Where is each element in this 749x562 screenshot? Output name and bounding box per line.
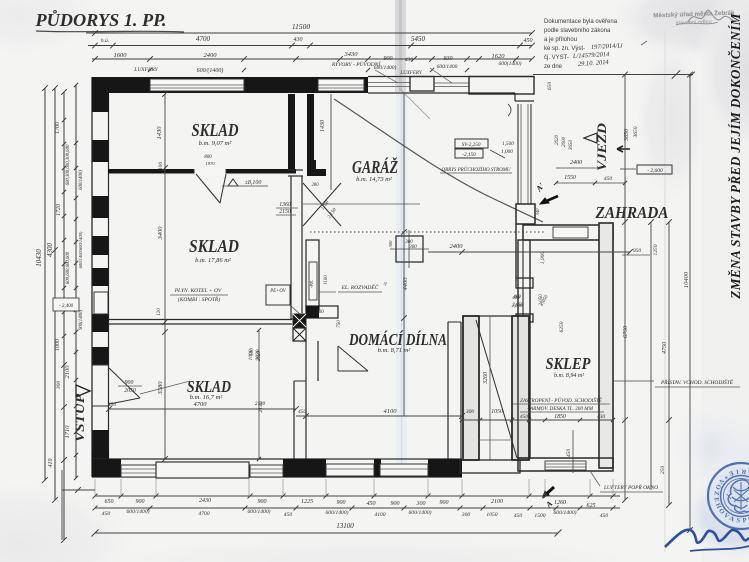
svg-text:10430: 10430 <box>35 249 43 267</box>
svg-text:3260: 3260 <box>483 372 489 385</box>
svg-text:EL. ROZVADĚČ: EL. ROZVADĚČ <box>341 283 379 291</box>
svg-text:450: 450 <box>520 413 529 420</box>
svg-text:1720: 1720 <box>56 204 62 216</box>
svg-text:1,500: 1,500 <box>502 141 514 147</box>
svg-text:600/1400): 600/1400) <box>326 509 349 516</box>
svg-text:450: 450 <box>565 449 572 458</box>
svg-text:1000: 1000 <box>55 339 61 351</box>
svg-text:2430: 2430 <box>199 497 211 504</box>
svg-text:6750: 6750 <box>623 326 629 338</box>
svg-text:600,600,600,600: 600,600,600,600 <box>66 251 71 284</box>
svg-text:4300: 4300 <box>46 243 54 258</box>
svg-text:450: 450 <box>524 37 533 44</box>
svg-text:750: 750 <box>337 320 342 328</box>
svg-text:900(1400): 900(1400) <box>79 310 84 330</box>
svg-text:2,050: 2,050 <box>539 294 544 306</box>
svg-text:2100: 2100 <box>64 365 71 379</box>
svg-text:900: 900 <box>125 380 134 386</box>
svg-text:4700: 4700 <box>196 35 211 43</box>
svg-text:LUXFERY: LUXFERY <box>133 67 158 73</box>
svg-text:b.m. 9,07 m²: b.m. 9,07 m² <box>199 140 233 147</box>
svg-text:200: 200 <box>316 310 324 315</box>
svg-text:1970: 1970 <box>205 161 215 166</box>
svg-text:450: 450 <box>514 513 523 519</box>
svg-text:-2,150: -2,150 <box>462 152 476 158</box>
svg-text:2400: 2400 <box>204 52 218 59</box>
svg-text:900: 900 <box>440 500 449 506</box>
svg-text:PLYN. KOTEL + OV: PLYN. KOTEL + OV <box>174 288 222 294</box>
svg-text:čj. VYST-: čj. VYST- <box>544 55 569 61</box>
svg-text:3430: 3430 <box>344 51 359 58</box>
svg-text:4750: 4750 <box>661 342 668 354</box>
svg-text:a je přílohou: a je přílohou <box>544 37 577 43</box>
svg-text:(KOMBI : SPOTŘ): (KOMBI : SPOTŘ) <box>178 295 220 303</box>
svg-text:450: 450 <box>367 500 376 507</box>
svg-text:GARÁŽ: GARÁŽ <box>352 157 398 177</box>
svg-text:900: 900 <box>337 500 346 506</box>
svg-text:- 2,400: - 2,400 <box>59 304 74 309</box>
svg-text:Dokumentace byla ověřena: Dokumentace byla ověřena <box>544 19 618 25</box>
svg-text:SKLAD: SKLAD <box>192 120 239 140</box>
svg-text:430: 430 <box>405 56 414 63</box>
svg-text:450: 450 <box>298 408 307 415</box>
svg-text:1360: 1360 <box>279 202 291 208</box>
svg-text:b.m. 8,94 m²: b.m. 8,94 m² <box>554 372 584 379</box>
svg-text:1,000: 1,000 <box>501 149 513 155</box>
svg-text:1850: 1850 <box>554 414 566 420</box>
svg-text:- 2,600: - 2,600 <box>647 168 663 174</box>
svg-text:1225: 1225 <box>301 499 313 505</box>
svg-text:1000: 1000 <box>248 349 254 360</box>
svg-text:2600: 2600 <box>562 137 567 148</box>
svg-text:450: 450 <box>108 401 117 408</box>
svg-text:1550: 1550 <box>564 175 576 181</box>
svg-text:LUFTERY POPŘ OKNO: LUFTERY POPŘ OKNO <box>603 483 658 491</box>
svg-text:b.m. 8,71 m²: b.m. 8,71 m² <box>378 347 412 354</box>
svg-text:VSTUP: VSTUP <box>72 393 87 442</box>
svg-text:600,300,600,300,600: 600,300,600,300,600 <box>66 144 71 185</box>
svg-text:1050: 1050 <box>486 512 497 518</box>
svg-text:- ARMOV. DESKA TL. 200 MM: - ARMOV. DESKA TL. 200 MM <box>527 406 594 412</box>
svg-text:900: 900 <box>136 499 145 505</box>
svg-text:600/1400): 600/1400) <box>554 509 577 516</box>
svg-text:1500: 1500 <box>534 513 545 519</box>
svg-text:120: 120 <box>157 308 162 316</box>
svg-text:600/1400/600/1400): 600/1400/600/1400) <box>78 231 83 268</box>
svg-text:1430: 1430 <box>156 126 163 140</box>
svg-text:4700: 4700 <box>194 401 208 408</box>
svg-text:450: 450 <box>102 511 111 517</box>
svg-text:410: 410 <box>47 459 54 468</box>
svg-text:PŘÍSTAV. VCHOD. SCHODIŠTĚ: PŘÍSTAV. VCHOD. SCHODIŠTĚ <box>660 378 734 386</box>
svg-text:2150: 2150 <box>279 209 291 215</box>
svg-text:300: 300 <box>56 381 62 391</box>
svg-text:430: 430 <box>597 413 606 420</box>
svg-text:LUXFERY: LUXFERY <box>399 71 423 76</box>
svg-text:3650: 3650 <box>633 126 639 138</box>
svg-text:450: 450 <box>604 175 613 182</box>
svg-text:4100: 4100 <box>374 512 385 518</box>
svg-text:ZASTROPENÍ - PŮVOD. SCHODIŠTĚ: ZASTROPENÍ - PŮVOD. SCHODIŠTĚ <box>520 396 603 404</box>
svg-text:SV-2,250: SV-2,250 <box>462 142 481 148</box>
svg-text:6250: 6250 <box>559 321 565 332</box>
svg-text:100: 100 <box>158 162 164 171</box>
svg-text:b.m. 17,86 m²: b.m. 17,86 m² <box>195 257 232 264</box>
svg-text:ze dne: ze dne <box>544 64 563 70</box>
svg-text:300: 300 <box>409 245 417 250</box>
svg-text:5450: 5450 <box>411 35 426 43</box>
svg-text:600/(1400): 600/(1400) <box>197 67 224 74</box>
svg-text:1250: 1250 <box>653 244 659 255</box>
svg-text:podle slavebního zákona: podle slavebního zákona <box>544 28 611 34</box>
svg-text:1620: 1620 <box>492 53 506 60</box>
svg-text:2100: 2100 <box>491 499 503 505</box>
svg-text:600/1400: 600/1400 <box>437 63 458 70</box>
svg-text:600/1400): 600/1400) <box>127 508 150 515</box>
svg-text:280: 280 <box>311 183 319 188</box>
svg-text:2620: 2620 <box>555 135 560 146</box>
svg-text:3650: 3650 <box>624 129 630 142</box>
svg-text:300: 300 <box>461 512 471 518</box>
svg-text:h.ú.: h.ú. <box>101 38 109 44</box>
svg-text:2,050: 2,050 <box>512 303 524 308</box>
svg-text:13100: 13100 <box>336 522 354 530</box>
svg-text:1,900: 1,900 <box>540 252 546 265</box>
svg-text:±8,100: ±8,100 <box>245 180 262 186</box>
svg-text:900: 900 <box>258 499 267 505</box>
svg-text:340: 340 <box>535 208 540 216</box>
svg-text:650: 650 <box>547 82 553 91</box>
svg-text:1710: 1710 <box>64 425 71 439</box>
svg-text:SKLEP: SKLEP <box>546 354 592 373</box>
svg-text:PŮDORYS 1. PP.: PŮDORYS 1. PP. <box>34 10 166 30</box>
svg-text:4700: 4700 <box>198 511 209 517</box>
svg-text:900: 900 <box>391 501 400 507</box>
svg-text:250: 250 <box>660 466 666 475</box>
svg-text:400: 400 <box>513 295 521 300</box>
svg-text:300: 300 <box>416 501 426 507</box>
svg-text:2400: 2400 <box>450 243 464 250</box>
svg-text:SKLAD: SKLAD <box>189 236 239 256</box>
svg-text:930: 930 <box>444 56 453 62</box>
svg-text:1700: 1700 <box>55 122 61 134</box>
svg-text:450: 450 <box>600 513 609 519</box>
svg-text:3650: 3650 <box>569 140 574 151</box>
svg-text:600/1400): 600/1400) <box>248 508 271 515</box>
svg-text:450: 450 <box>284 512 293 518</box>
svg-text:2400: 2400 <box>570 159 582 166</box>
svg-text:1260: 1260 <box>554 500 566 506</box>
svg-text:-PR.: -PR. <box>309 280 314 288</box>
svg-text:650: 650 <box>105 499 114 505</box>
svg-text:900: 900 <box>384 56 393 62</box>
svg-text:3400: 3400 <box>157 226 164 241</box>
svg-text:600/1400): 600/1400) <box>374 64 397 71</box>
svg-text:1430: 1430 <box>319 120 326 132</box>
svg-text:ZMĚNA STAVBY PŘED JEJÍM DOKONČ: ZMĚNA STAVBY PŘED JEJÍM DOKONČENÍM <box>728 12 743 299</box>
svg-text:300: 300 <box>388 240 393 248</box>
svg-text:600/1400): 600/1400) <box>79 170 84 190</box>
svg-text:1100: 1100 <box>324 275 329 285</box>
svg-text:b.m. 14,73 m²: b.m. 14,73 m² <box>356 176 393 183</box>
svg-text:10400: 10400 <box>683 271 690 288</box>
svg-text:4100: 4100 <box>384 408 398 415</box>
svg-text:Z: Z <box>712 491 719 496</box>
svg-text:430: 430 <box>294 36 303 43</box>
svg-text:OBRYS PRŮCHOZÍHO STROMU: OBRYS PRŮCHOZÍHO STROMU <box>441 167 510 173</box>
svg-text:300: 300 <box>465 409 475 415</box>
svg-text:1600: 1600 <box>114 52 128 59</box>
svg-text:2050: 2050 <box>124 388 136 394</box>
svg-text:11500: 11500 <box>292 22 310 31</box>
svg-text:b.m. 16,7 m²: b.m. 16,7 m² <box>190 394 224 401</box>
svg-text:ZAHRADA: ZAHRADA <box>595 203 669 222</box>
svg-text:VJEZD: VJEZD <box>594 122 609 171</box>
svg-text:2020: 2020 <box>255 349 261 360</box>
svg-text:600/1400): 600/1400) <box>409 509 432 516</box>
svg-text:1050: 1050 <box>491 409 503 415</box>
svg-text:2130: 2130 <box>258 401 264 412</box>
svg-text:PE+OV: PE+OV <box>269 289 287 294</box>
svg-text:950: 950 <box>633 248 642 254</box>
svg-text:600(1400): 600(1400) <box>499 60 522 67</box>
svg-text:4400: 4400 <box>402 277 409 291</box>
svg-text:ke sp. zn. Výst-: ke sp. zn. Výst- <box>544 46 585 52</box>
svg-text:800: 800 <box>204 155 212 160</box>
